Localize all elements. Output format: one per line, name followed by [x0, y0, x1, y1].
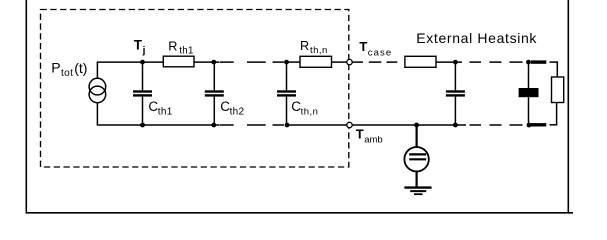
- svg-text:th2: th2: [230, 107, 245, 118]
- svg-text:th1: th1: [158, 107, 173, 118]
- svg-text:R: R: [168, 40, 177, 54]
- svg-text:External Heatsink: External Heatsink: [416, 30, 537, 46]
- svg-text:T: T: [134, 38, 143, 53]
- svg-text:T: T: [356, 126, 364, 141]
- svg-text:P: P: [51, 59, 60, 75]
- svg-text:th,n: th,n: [301, 106, 319, 117]
- svg-text:th1: th1: [179, 46, 193, 57]
- svg-text:tot: tot: [61, 68, 73, 79]
- svg-text:amb: amb: [364, 135, 382, 146]
- svg-text:(t): (t): [74, 60, 87, 76]
- svg-text:R: R: [300, 39, 309, 53]
- svg-text:case: case: [368, 47, 392, 58]
- svg-text:T: T: [359, 39, 367, 54]
- svg-text:th,n: th,n: [310, 45, 328, 56]
- svg-text:j: j: [142, 46, 146, 57]
